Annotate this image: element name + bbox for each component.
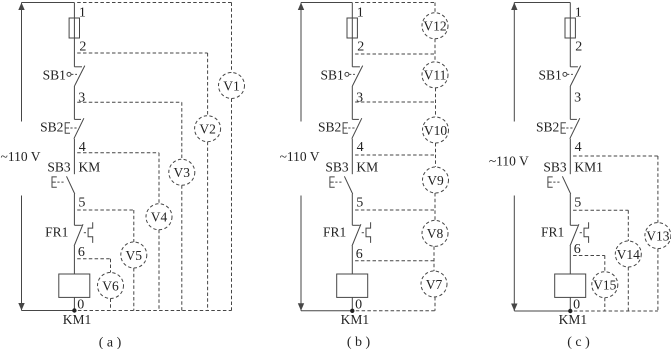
svg-text:1: 1 [357,6,364,21]
svg-text:V4: V4 [151,210,168,225]
svg-text:4: 4 [575,140,582,155]
svg-text:6: 6 [78,245,85,260]
svg-text:SB1: SB1 [43,67,66,82]
svg-text:SB3: SB3 [47,160,71,175]
svg-text:SB2: SB2 [40,120,63,135]
svg-text:KM1: KM1 [63,312,92,327]
svg-text:KM: KM [356,160,378,175]
svg-text:( c ): ( c ) [567,335,590,349]
svg-text:0: 0 [355,297,362,312]
svg-text:FR1: FR1 [323,225,346,240]
svg-text:4: 4 [357,140,364,155]
svg-text:SB3: SB3 [543,160,567,175]
svg-text:6: 6 [356,247,363,262]
svg-text:~110 V: ~110 V [489,153,529,168]
svg-text:V11: V11 [424,68,447,83]
svg-text:0: 0 [573,297,580,312]
svg-text:3: 3 [574,91,581,106]
svg-text:5: 5 [78,195,85,210]
svg-text:6: 6 [574,242,581,257]
svg-text:KM1: KM1 [559,312,588,327]
svg-text:1: 1 [575,6,582,21]
svg-text:V6: V6 [102,278,119,293]
svg-text:V10: V10 [424,123,447,138]
svg-text:3: 3 [78,91,85,106]
svg-text:~110 V: ~110 V [280,149,320,164]
svg-text:SB2: SB2 [318,120,341,135]
svg-text:V3: V3 [174,165,191,180]
svg-text:3: 3 [356,91,363,106]
svg-text:SB1: SB1 [321,67,344,82]
svg-text:5: 5 [356,195,363,210]
svg-text:SB1: SB1 [539,67,562,82]
svg-text:KM1: KM1 [341,312,370,327]
svg-text:V12: V12 [423,19,446,34]
svg-text:2: 2 [357,40,364,55]
svg-text:SB2: SB2 [536,120,559,135]
svg-text:~110 V: ~110 V [1,149,41,164]
svg-text:V7: V7 [426,277,443,292]
svg-text:V14: V14 [617,247,640,262]
svg-text:1: 1 [79,6,86,21]
svg-text:KM1: KM1 [574,160,603,175]
svg-text:5: 5 [574,195,581,210]
svg-text:2: 2 [575,40,582,55]
svg-text:V9: V9 [427,173,444,188]
svg-text:( a ): ( a ) [99,336,122,349]
svg-text:V15: V15 [593,278,616,293]
svg-text:V2: V2 [199,122,216,137]
svg-text:V8: V8 [427,226,444,241]
svg-text:FR1: FR1 [45,225,68,240]
svg-text:SB3: SB3 [325,160,349,175]
svg-text:V5: V5 [126,248,143,263]
svg-text:( b ): ( b ) [347,335,371,349]
svg-text:FR1: FR1 [541,225,564,240]
svg-text:V13: V13 [646,228,669,243]
svg-text:V1: V1 [223,78,240,93]
svg-text:KM: KM [79,160,101,175]
svg-text:2: 2 [79,40,86,55]
